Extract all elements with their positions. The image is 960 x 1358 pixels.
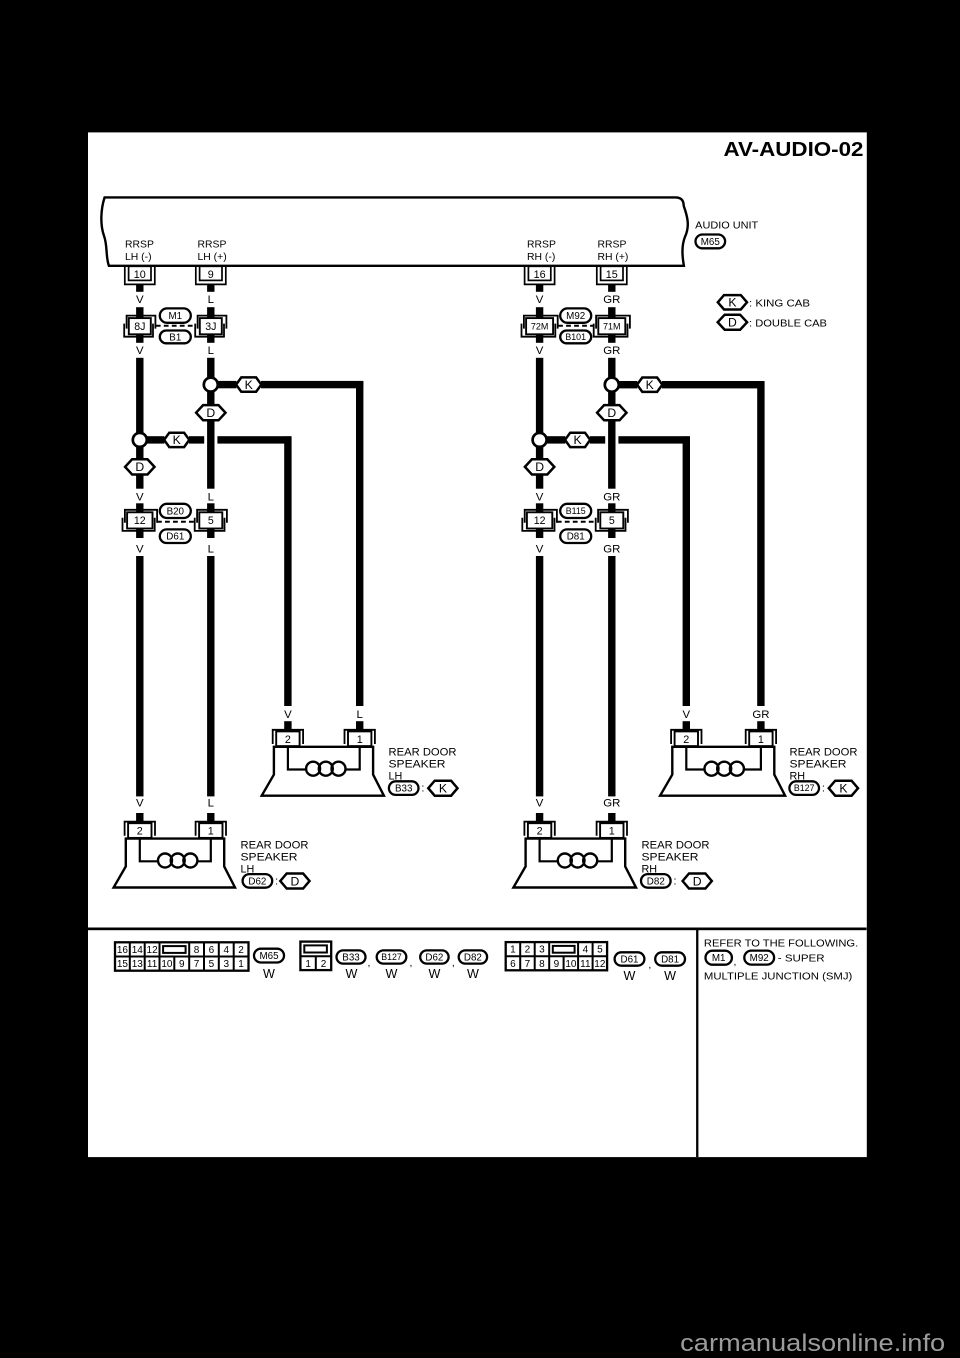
connector 12 (B115/D81) left half [525, 510, 557, 523]
pin 1 of rear door speaker LH (king cab) [356, 721, 363, 731]
pin 2 of rear door speaker RH (king cab) [683, 721, 690, 731]
D hexagon on V wire (right) [536, 447, 543, 460]
svg-text:D62: D62 [248, 876, 266, 887]
connector label M65 (audio unit) [696, 235, 726, 249]
svg-text:V: V [136, 543, 144, 555]
K hexagon on branch from L wire [236, 377, 261, 391]
svg-text:M1: M1 [168, 311, 182, 322]
svg-text:3J: 3J [205, 321, 216, 333]
legend hexagon K : KING CAB [718, 295, 747, 309]
svg-text:REAR DOOR: REAR DOOR [241, 839, 309, 851]
svg-text:L: L [208, 345, 214, 357]
connector oval M92 [560, 308, 591, 322]
svg-text:9: 9 [208, 269, 214, 281]
svg-text:B101: B101 [565, 332, 586, 342]
svg-text:16: 16 [534, 269, 546, 281]
wire V (pin16) to junction [536, 358, 543, 433]
svg-text:2: 2 [285, 734, 291, 746]
connector oval M1 [160, 308, 191, 322]
svg-text:15: 15 [117, 959, 129, 970]
svg-text:6: 6 [510, 959, 516, 970]
svg-text:71M: 71M [603, 321, 621, 331]
svg-text:V: V [536, 798, 544, 810]
connector oval D82 (face view) [459, 950, 487, 963]
svg-text:2: 2 [683, 734, 689, 746]
cab-type hexagon K of rear door speaker RH (king cab) [829, 781, 858, 796]
connector face view M65 (16-pin grid) [115, 942, 249, 970]
wire stubs into SMJ connectors [136, 307, 143, 318]
connector oval B127 of rear door speaker RH (king cab) [789, 781, 819, 795]
SMJ connector 71M (M92/B101) right half [596, 316, 630, 329]
svg-text::: : [421, 783, 424, 795]
svg-text:7: 7 [194, 959, 200, 970]
pin 2 of double-cab speaker [536, 813, 543, 823]
svg-text:7: 7 [525, 959, 531, 970]
svg-text:MULTIPLE JUNCTION (SMJ): MULTIPLE JUNCTION (SMJ) [704, 972, 852, 983]
connector 5 (B20/D61) right half [197, 510, 227, 523]
connector 5 (B115/D81) right half [598, 510, 628, 523]
junction node on V wire left [133, 433, 147, 447]
D hexagon on V wire (left) [136, 447, 143, 460]
svg-text:W: W [624, 969, 636, 983]
svg-text:V: V [136, 798, 144, 810]
svg-text:M92: M92 [566, 311, 585, 322]
svg-text:B115: B115 [566, 506, 586, 516]
svg-text:W: W [664, 969, 676, 983]
separator line above connector table [88, 928, 867, 931]
pin 1 of rear door speaker RH (king cab) [757, 721, 764, 731]
wire stubs out of SMJ connectors [136, 334, 143, 343]
svg-text:D81: D81 [661, 954, 679, 965]
svg-text:V: V [536, 294, 544, 306]
svg-text:SPEAKER: SPEAKER [642, 851, 699, 863]
svg-text:,: , [648, 960, 651, 971]
connector oval M65 (face view) [254, 949, 284, 963]
svg-text:1: 1 [357, 734, 363, 746]
svg-text:3: 3 [223, 959, 229, 970]
svg-text::: : [822, 783, 825, 795]
svg-text:W: W [429, 967, 441, 981]
svg-text:B1: B1 [169, 332, 181, 343]
svg-text:V: V [136, 491, 144, 503]
connector oval B20 [160, 504, 191, 518]
svg-text:W: W [386, 967, 398, 981]
svg-text:M1: M1 [712, 953, 726, 964]
svg-text:D82: D82 [647, 876, 665, 887]
pin 9 (RRSP LH+) [196, 267, 226, 285]
speaker body rear door speaker RH (king cab) [660, 747, 785, 796]
svg-text:2: 2 [238, 945, 244, 956]
svg-text:M65: M65 [259, 951, 279, 962]
svg-text:REAR DOOR: REAR DOOR [389, 747, 457, 759]
svg-text:REFER TO THE FOLLOWING.: REFER TO THE FOLLOWING. [704, 938, 858, 949]
svg-text:L: L [208, 294, 214, 306]
svg-text:14: 14 [132, 945, 144, 956]
svg-text:D: D [607, 406, 616, 420]
svg-text:K: K [173, 433, 181, 447]
pin 2 of double-cab speaker [136, 813, 143, 823]
svg-text:REAR DOOR: REAR DOOR [642, 839, 710, 851]
svg-text:D61: D61 [166, 532, 184, 543]
svg-text:AUDIO UNIT: AUDIO UNIT [695, 220, 759, 231]
svg-text:B33: B33 [342, 952, 360, 963]
svg-text:5: 5 [209, 959, 215, 970]
svg-text:RH (+): RH (+) [598, 252, 629, 263]
svg-text:B33: B33 [395, 784, 413, 795]
svg-text:- SUPER: - SUPER [778, 954, 825, 965]
svg-text:D: D [206, 406, 215, 420]
wire stubs out of B20/D61 connectors [136, 529, 143, 539]
svg-text:K: K [439, 782, 447, 796]
svg-text:REAR DOOR: REAR DOOR [790, 747, 858, 759]
svg-text:L: L [208, 491, 214, 503]
long wires down to door speakers [136, 556, 143, 796]
svg-text:M65: M65 [701, 237, 721, 248]
connector oval D61 [160, 529, 191, 543]
speaker body (double cab) [513, 839, 636, 888]
connector oval B115 [560, 504, 591, 518]
svg-text:4: 4 [223, 945, 229, 956]
svg-text:13: 13 [132, 959, 144, 970]
K hexagon on branch from GR wire [637, 378, 662, 392]
pin 10 (RRSP LH-) [125, 267, 155, 285]
svg-text:B20: B20 [167, 506, 185, 517]
svg-text:RRSP: RRSP [125, 240, 154, 251]
svg-text:D: D [135, 460, 144, 474]
wire L (pin9) to junction [207, 358, 214, 378]
svg-text:10: 10 [134, 269, 146, 281]
svg-text:,: , [452, 958, 455, 969]
diagram panel (white page area) [88, 132, 867, 1157]
speaker body rear door speaker LH (king cab) [262, 747, 384, 796]
svg-text:,: , [734, 957, 737, 968]
svg-text:4: 4 [583, 945, 589, 956]
SMJ oval M92 (note) [744, 951, 774, 965]
svg-text:RRSP: RRSP [527, 240, 556, 251]
svg-text:1: 1 [208, 826, 214, 838]
svg-text:2: 2 [321, 959, 327, 970]
table divider vertical line [696, 929, 698, 1158]
svg-text:8J: 8J [134, 321, 145, 333]
svg-text:RH (-): RH (-) [527, 252, 555, 263]
svg-text:W: W [346, 967, 358, 981]
svg-text:GR: GR [603, 798, 620, 810]
svg-text:5: 5 [609, 515, 615, 527]
svg-text:8: 8 [539, 959, 545, 970]
svg-text:V: V [284, 709, 292, 721]
svg-text:W: W [263, 967, 275, 981]
svg-text:D61: D61 [621, 954, 639, 965]
connector oval B101 [560, 331, 591, 344]
svg-text:AV-AUDIO-02: AV-AUDIO-02 [724, 138, 864, 161]
junction node on V wire right [533, 433, 547, 447]
connector oval D61 (face view) [615, 952, 645, 965]
svg-text:: DOUBLE CAB: : DOUBLE CAB [749, 318, 827, 329]
branch wire with K flag from V wire left [146, 436, 164, 443]
svg-text:72M: 72M [531, 321, 549, 331]
svg-text:B127: B127 [794, 783, 815, 793]
pin 15 (RRSP RH+) [597, 267, 627, 285]
svg-text:D: D [728, 316, 737, 330]
svg-text:V: V [536, 543, 544, 555]
svg-text:1: 1 [510, 945, 516, 956]
svg-text:2: 2 [137, 826, 143, 838]
svg-text:M92: M92 [750, 953, 769, 964]
svg-text:D: D [535, 460, 544, 474]
svg-text:1: 1 [609, 826, 615, 838]
audio unit box (torn-edge bus) [101, 197, 687, 265]
connector oval B127 (face view) [377, 950, 407, 963]
svg-text:11: 11 [147, 959, 158, 970]
svg-text:9: 9 [554, 959, 560, 970]
pin 1 of double-cab speaker [608, 813, 615, 823]
wire stubs into B20/D61 connectors [136, 503, 143, 512]
cab-type hexagon D [683, 874, 712, 889]
SMJ connector 8J (M1/B1) left half [127, 316, 156, 329]
connector oval D81 (face view) [655, 952, 685, 965]
svg-text:GR: GR [603, 543, 620, 555]
connector 12 (B20/D61) left half [125, 510, 157, 523]
svg-text:15: 15 [606, 269, 618, 281]
svg-text:D62: D62 [425, 952, 443, 963]
K hexagon on branch from V wire left [164, 433, 189, 447]
svg-text:SPEAKER: SPEAKER [790, 759, 847, 771]
svg-text:12: 12 [594, 959, 606, 970]
connector oval D62 (face view) [420, 950, 448, 963]
cab-type hexagon K of rear door speaker LH (king cab) [428, 781, 457, 796]
pin 16 (RRSP RH-) [525, 267, 555, 285]
K hexagon on branch from V wire right [565, 433, 590, 447]
svg-text:carmanualsonline.info: carmanualsonline.info [680, 1330, 945, 1357]
svg-text:LH (+): LH (+) [198, 252, 227, 263]
connector oval B1 [160, 331, 191, 344]
svg-text:D: D [693, 874, 702, 888]
svg-text:B127: B127 [381, 952, 402, 962]
connector oval D81 [560, 529, 591, 543]
svg-text:,: , [409, 958, 412, 969]
svg-text:12: 12 [534, 515, 546, 527]
svg-text:K: K [646, 378, 654, 392]
svg-text:L: L [208, 543, 214, 555]
branch wire with K flag from GR wire [618, 381, 637, 388]
SMJ connector 3J (M1/B1) right half [198, 316, 227, 329]
svg-text:K: K [245, 378, 253, 392]
svg-text:SPEAKER: SPEAKER [389, 759, 446, 771]
svg-text:5: 5 [597, 945, 603, 956]
SMJ connector 72M (M92/B101) left half [524, 316, 558, 329]
branch wire with K flag from L wire [217, 381, 236, 388]
junction node on GR wire [605, 378, 619, 392]
svg-text:RRSP: RRSP [598, 240, 627, 251]
D hexagon on GR wire [608, 392, 615, 406]
cab-type hexagon D [280, 874, 309, 889]
svg-text:9: 9 [179, 959, 185, 970]
svg-text:GR: GR [603, 345, 620, 357]
svg-text:6: 6 [209, 945, 215, 956]
svg-text:L: L [208, 798, 214, 810]
svg-text::: : [275, 876, 278, 888]
svg-text:GR: GR [603, 294, 620, 306]
pin 2 of rear door speaker LH (king cab) [284, 721, 291, 731]
svg-text:8: 8 [194, 945, 200, 956]
speaker body (double cab) [114, 839, 235, 888]
svg-text:D82: D82 [464, 952, 482, 963]
svg-text:10: 10 [161, 959, 173, 970]
svg-text:: KING CAB: : KING CAB [749, 298, 810, 309]
connector face view D61/D81 (12-pin grid) [506, 942, 607, 970]
connector oval D82 [641, 874, 671, 888]
connector face view 2-pin (B33/B127/D62/D82) [300, 942, 331, 971]
svg-text:V: V [536, 345, 544, 357]
svg-text:5: 5 [208, 515, 214, 527]
dashed mating line M1/B1 [156, 325, 195, 327]
svg-text:V: V [682, 709, 690, 721]
svg-text:D81: D81 [567, 532, 585, 543]
svg-text:SPEAKER: SPEAKER [241, 851, 298, 863]
dashed mating line B20/D61 [157, 521, 194, 523]
svg-text:3: 3 [539, 945, 545, 956]
wire V (pin10) to junction [136, 358, 143, 433]
svg-text:V: V [136, 345, 144, 357]
svg-text:W: W [467, 967, 479, 981]
connector oval D62 [243, 874, 273, 888]
svg-text:K: K [728, 296, 736, 310]
connector oval B33 of rear door speaker LH (king cab) [389, 781, 419, 795]
svg-text:LH (-): LH (-) [125, 252, 152, 263]
legend hexagon D : DOUBLE CAB [718, 315, 747, 330]
svg-text:GR: GR [603, 491, 620, 503]
pin 1 of double-cab speaker [207, 813, 214, 823]
svg-text:1: 1 [758, 734, 764, 746]
svg-text:12: 12 [134, 515, 146, 527]
svg-text:GR: GR [752, 709, 769, 721]
svg-text:L: L [357, 709, 363, 721]
svg-text:V: V [136, 294, 144, 306]
wire GR (pin15) to junction [608, 358, 615, 378]
svg-text::: : [674, 876, 677, 888]
junction node on L wire [204, 378, 218, 392]
svg-text:11: 11 [580, 959, 591, 970]
svg-text:1: 1 [305, 959, 311, 970]
D hexagon on L wire [207, 392, 214, 406]
svg-text:K: K [839, 782, 847, 796]
svg-text:V: V [536, 491, 544, 503]
svg-text:2: 2 [537, 826, 543, 838]
connector oval B33 (face view) [337, 950, 366, 963]
branch wire with K flag from V wire right [546, 436, 565, 443]
svg-text:RRSP: RRSP [198, 240, 227, 251]
svg-text:1: 1 [238, 959, 244, 970]
dashed mating line M92/B101 [558, 325, 593, 327]
SMJ oval M1 (note) [706, 951, 732, 965]
svg-text:,: , [367, 958, 370, 969]
svg-text:16: 16 [117, 945, 129, 956]
svg-text:D: D [290, 874, 299, 888]
svg-text:12: 12 [147, 945, 159, 956]
svg-text:10: 10 [565, 959, 577, 970]
dashed mating line B115/D81 [557, 521, 596, 523]
svg-text:2: 2 [525, 945, 531, 956]
svg-text:K: K [574, 433, 582, 447]
